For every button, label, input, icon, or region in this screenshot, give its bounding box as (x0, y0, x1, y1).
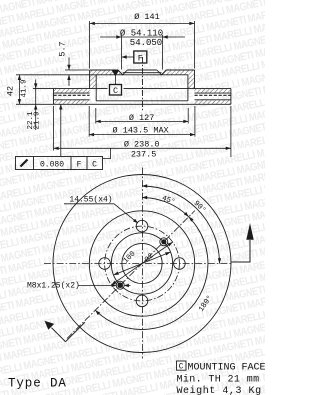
bolt circle dia 100 (dash-dot) (105, 226, 180, 301)
M8 hole lower-left ring (116, 281, 124, 289)
top view dimension texts (6, 12, 169, 169)
top plate underside left (54, 92, 90, 94)
svg-text:Weight 4,3 Kg: Weight 4,3 Kg (177, 385, 262, 395)
bolt hole bottom (136, 295, 148, 307)
dark chamfer mark at bore (112, 70, 120, 76)
svg-text:Min. TH 21 mm: Min. TH 21 mm (177, 373, 260, 385)
svg-text:14.55(x4): 14.55(x4) (69, 196, 112, 205)
bolt hole left (99, 258, 111, 270)
F datum leader (122, 56, 134, 58)
dia 127 dim line (96, 120, 189, 122)
section fat arrow right (246, 223, 253, 240)
bore chamfer V left (118, 70, 127, 75)
dia 54 dim line (100, 36, 185, 38)
section cut left arm (52, 322, 86, 342)
dia127 arrows (96, 120, 101, 123)
tolerance frame hook (103, 148, 111, 158)
dia 127 ext lines (96, 108, 188, 124)
dia100 dim line diagonal (111, 242, 172, 285)
arc arrows (142, 196, 147, 199)
tolerance frame leader to surface (60, 104, 62, 156)
svg-text:Ø 141: Ø 141 (134, 12, 160, 22)
tolerance frame (16, 157, 103, 170)
F datum box (134, 51, 147, 63)
horizontal centerline (44, 263, 232, 265)
svg-text:MOUNTING FACE: MOUNTING FACE (188, 362, 266, 373)
ring bottom plate hatch right (195, 100, 231, 105)
C mounting box (177, 361, 187, 370)
hatch fills (54, 70, 231, 104)
svg-text:Type DA: Type DA (8, 377, 67, 391)
dia 238 dim line (54, 147, 231, 149)
ring outer edge right (230, 89, 232, 105)
svg-text:45°: 45° (161, 194, 177, 207)
runout symbol (21, 160, 28, 167)
leader M8x1.25 (78, 284, 131, 286)
F datum arrow (122, 55, 127, 58)
svg-text:41.9: 41.9 (21, 79, 29, 97)
mounting face line + left extension (16, 74, 188, 76)
ring outer edge left (53, 89, 55, 105)
hat wall hatch right (188, 75, 195, 89)
svg-text:82: 82 (144, 252, 156, 264)
svg-text:Ø 54.110: Ø 54.110 (120, 28, 163, 38)
bottom view labels (27, 194, 215, 314)
svg-text:C: C (179, 363, 184, 372)
bottom plate topside right (195, 99, 231, 101)
svg-text:Ø 238.0: Ø 238.0 (124, 140, 160, 150)
dia 54 ext lines (122, 35, 163, 70)
vent channel dashed line left (54, 94, 90, 96)
svg-text:Ø 127: Ø 127 (129, 113, 155, 123)
section fat arrow left (45, 321, 55, 330)
dia141 arrows (90, 22, 95, 25)
svg-text:42: 42 (6, 86, 16, 96)
ring top surface with C-box gap, incl. left ext (33, 88, 231, 90)
90 deg arc r77.5 (142, 186, 220, 264)
top plate underside right (195, 92, 231, 94)
hat inner wall right (187, 75, 189, 101)
inner recess floor (96, 100, 188, 102)
hat plate hatch right (162, 70, 195, 75)
outer circle dia 238 (53, 175, 231, 353)
centerline of section view (142, 57, 144, 112)
vent channel dashed line right (195, 94, 231, 96)
tol frame leader arrow (59, 104, 62, 109)
circle dia 82 (111, 233, 172, 294)
bore chamfer V right (157, 70, 166, 75)
svg-text:237.5: 237.5 (131, 150, 157, 160)
dia54 outside arrows (116, 35, 121, 38)
hat outer wall left (89, 70, 91, 89)
centerlines bottom view (44, 168, 232, 359)
5.7 dim line (68, 58, 70, 87)
svg-text:21.9: 21.9 (34, 111, 42, 129)
ring top plate hatch right (195, 89, 231, 94)
svg-text:C: C (113, 86, 118, 96)
svg-text:F: F (138, 53, 143, 63)
M8 hole dots (117, 282, 123, 288)
hat circle dia 141 (89, 211, 194, 316)
arrows: top view (18, 22, 231, 150)
dia 141 ext lines (90, 21, 195, 69)
svg-text:F: F (77, 161, 82, 170)
center bore dia 54 (122, 243, 162, 283)
hat top surface center (behind bore) (127, 69, 157, 71)
svg-text:0.080: 0.080 (40, 161, 64, 170)
vertical centerline (142, 168, 144, 359)
hat top surface right (166, 69, 194, 71)
5.7 arrows (67, 65, 70, 70)
hat top surface left (90, 69, 118, 71)
svg-text:Ø 143.5 MAX: Ø 143.5 MAX (113, 125, 169, 135)
dia 143.5 dim line (89, 134, 195, 136)
bottom plate topside left (54, 99, 90, 101)
42 arrows (18, 75, 21, 80)
bolt hole top (136, 220, 148, 232)
C datum leader (114, 76, 116, 85)
hat wall hatch left (90, 75, 97, 89)
ring top plate hatch left (54, 89, 90, 94)
dia 143.5 ext lines (89, 106, 195, 137)
leader 14.55(x4) (64, 204, 137, 223)
svg-text:180°: 180° (197, 294, 215, 314)
45deg diagonal centerline through M8 holes (67, 211, 195, 339)
svg-text:C: C (92, 161, 97, 170)
svg-text:M8x1.25(x2): M8x1.25(x2) (27, 281, 80, 290)
ring bottom surface + left ext (16, 103, 231, 105)
22.1 arrows (34, 83, 37, 88)
M8 hole upper-right ring (160, 238, 168, 246)
42 dim line (18, 75, 20, 105)
22.1 dim line (35, 80, 37, 131)
hat inner wall left (95, 75, 97, 101)
svg-text:100: 100 (122, 250, 138, 266)
hat plate hatch left (90, 70, 123, 75)
45/180 deg arc r66 (95, 198, 208, 330)
bolt hole right (174, 258, 186, 270)
section cut right arm (232, 240, 251, 262)
dia 238 ext lines (54, 106, 231, 157)
dia238 arrows (54, 147, 59, 150)
svg-text:5.7: 5.7 (58, 41, 68, 56)
dia82 dim line diagonal (114, 252, 171, 275)
dia143.5 arrows (89, 133, 94, 136)
ring bottom plate hatch left (54, 100, 90, 105)
C datum box (110, 85, 122, 96)
svg-text:54.050: 54.050 (130, 38, 162, 48)
bore far-side chamfer edge (123, 72, 162, 74)
hat outer wall right (194, 70, 196, 89)
5.7 top ext line (65, 69, 89, 71)
dia 141 dim line (90, 22, 195, 24)
